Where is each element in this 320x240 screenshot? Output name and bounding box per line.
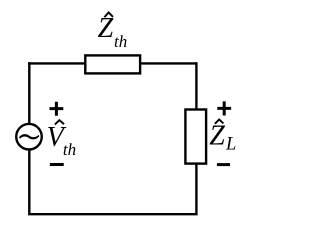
wire: top-right horizontal (Zth box to top-right corner) bbox=[140, 62, 197, 64]
svg-text:Z: Z bbox=[98, 13, 114, 44]
wire: left vertical lower (source circle down to bottom-left corner) bbox=[28, 150, 30, 214]
source Vth (AC voltage source circle) bbox=[16, 124, 42, 150]
impedance ZL (load box) bbox=[185, 110, 206, 164]
impedance Zth (series box) bbox=[85, 55, 140, 73]
svg-text:Z: Z bbox=[209, 120, 225, 151]
load ZL: plus sign bbox=[217, 101, 231, 115]
svg-text:th: th bbox=[114, 32, 127, 51]
wire: left vertical upper (corner down to source circle) bbox=[28, 62, 30, 123]
label Vth: hat accent bbox=[55, 120, 64, 124]
label Zth: hat accent bbox=[104, 12, 113, 17]
wire: bottom horizontal (bottom-left corner to bottom-right corner) bbox=[28, 213, 198, 215]
source Vth: minus sign bbox=[50, 163, 64, 166]
load ZL: minus sign bbox=[217, 163, 230, 166]
svg-text:L: L bbox=[225, 134, 236, 154]
source Vth: sine tilde symbol bbox=[19, 134, 39, 139]
wire: right vertical upper (corner down to ZL box) bbox=[195, 62, 197, 110]
wire: right vertical lower (ZL box down to bottom-right corner) bbox=[195, 162, 197, 214]
wire: top-left horizontal (top-left corner to Zth box) bbox=[28, 62, 86, 64]
svg-text:th: th bbox=[63, 140, 76, 159]
source Vth: plus sign bbox=[50, 102, 64, 116]
label ZL: hat accent bbox=[215, 119, 224, 123]
